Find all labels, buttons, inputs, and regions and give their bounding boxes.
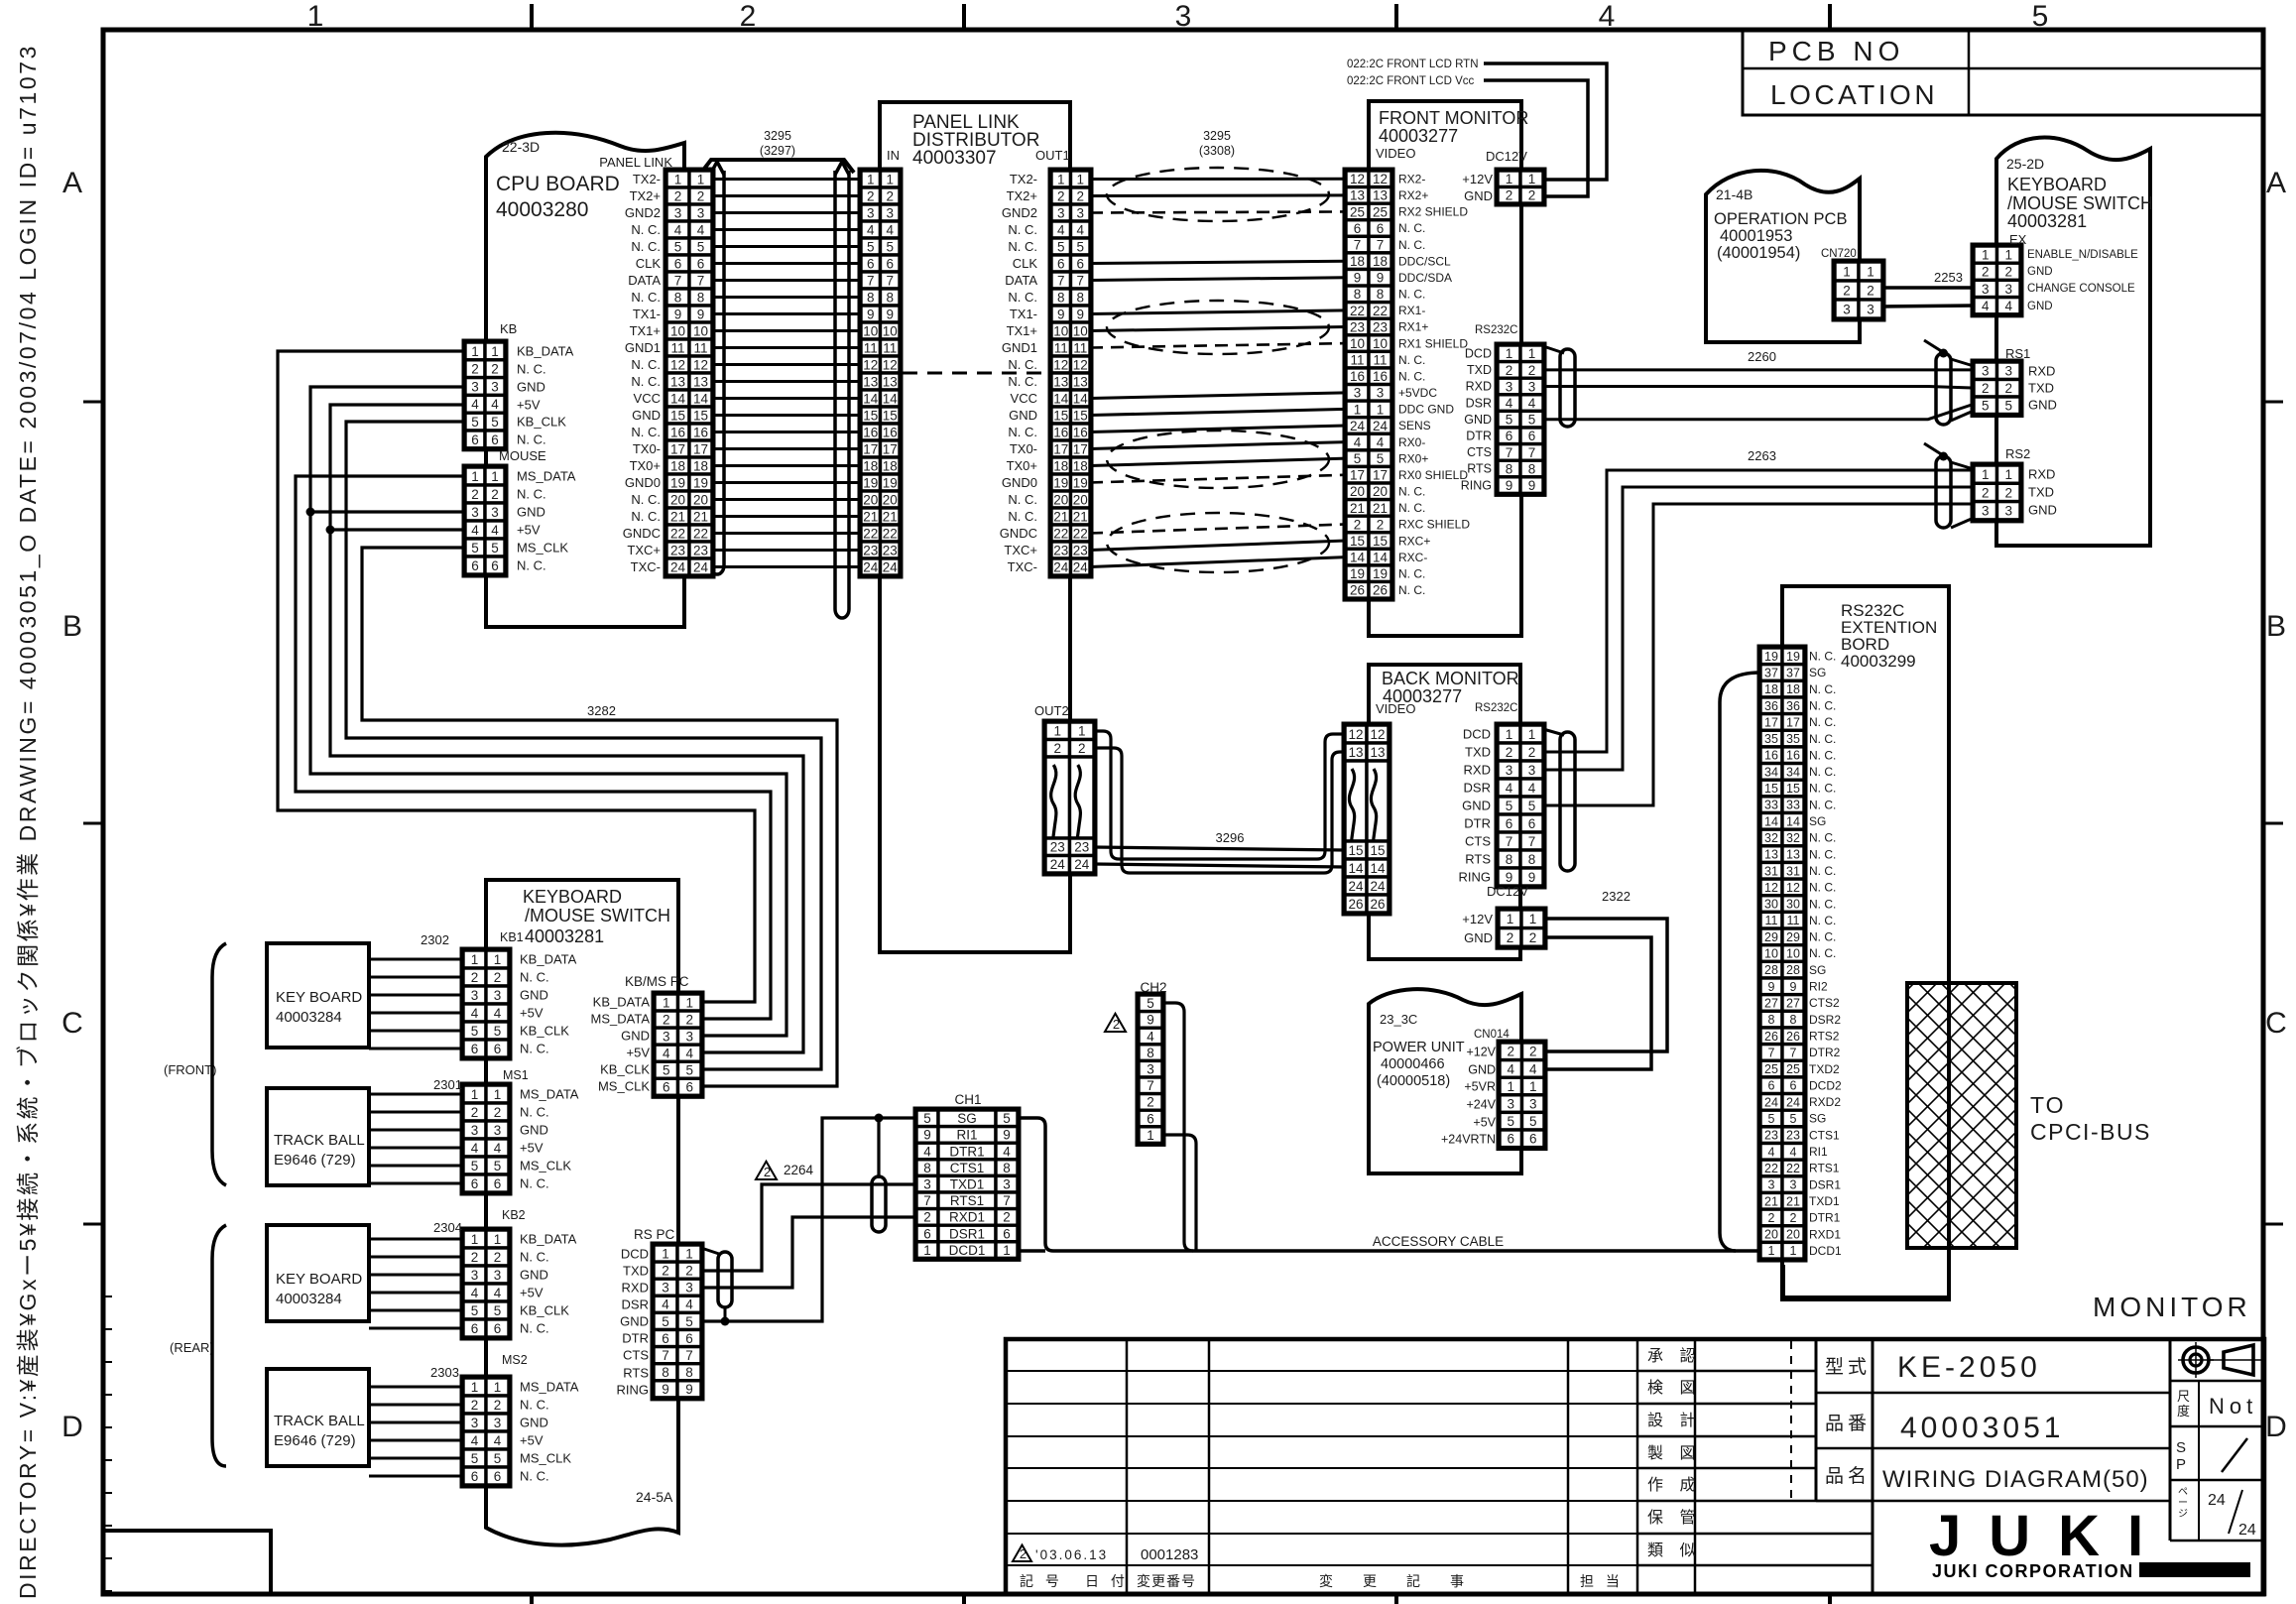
svg-text:1: 1	[662, 1246, 669, 1261]
svg-text:GND: GND	[1468, 1063, 1496, 1077]
svg-text:13: 13	[863, 374, 878, 389]
svg-text:5: 5	[674, 239, 682, 254]
svg-text:4: 4	[2004, 299, 2012, 313]
svg-text:5: 5	[471, 1024, 479, 1039]
svg-text:19: 19	[693, 475, 708, 490]
svg-text:6: 6	[1768, 1079, 1775, 1093]
svg-text:19: 19	[670, 475, 685, 490]
svg-text:6: 6	[662, 1331, 669, 1346]
svg-text:製 図: 製 図	[1647, 1444, 1701, 1462]
svg-text:1: 1	[1076, 172, 1084, 186]
svg-text:4: 4	[1528, 396, 1536, 411]
svg-text:1: 1	[685, 1246, 693, 1261]
svg-text:設 計: 設 計	[1647, 1412, 1701, 1429]
svg-text:N. C.: N. C.	[1809, 930, 1836, 944]
svg-text:N. C.: N. C.	[1809, 864, 1836, 878]
svg-text:N. C.: N. C.	[1398, 566, 1425, 580]
svg-text:2: 2	[1076, 188, 1084, 203]
svg-text:4: 4	[1147, 1029, 1154, 1044]
svg-text:SG: SG	[1809, 666, 1826, 679]
svg-text:9: 9	[1528, 478, 1536, 493]
svg-text:40003281: 40003281	[525, 926, 604, 946]
svg-text:6: 6	[471, 1042, 479, 1056]
svg-text:10: 10	[1073, 323, 1088, 338]
svg-text:24: 24	[1370, 879, 1386, 894]
svg-text:2: 2	[494, 1250, 502, 1265]
svg-text:+5V: +5V	[520, 1286, 544, 1300]
svg-text:2: 2	[1982, 485, 1990, 500]
svg-text:TXC-: TXC-	[631, 559, 661, 574]
svg-text:17: 17	[670, 441, 685, 456]
svg-text:TO: TO	[2030, 1092, 2066, 1118]
svg-text:2: 2	[471, 487, 479, 502]
svg-text:N. C.: N. C.	[1809, 831, 1836, 845]
svg-text:4: 4	[685, 1297, 693, 1312]
svg-text:RING: RING	[617, 1383, 650, 1398]
svg-text:2260: 2260	[1748, 349, 1776, 364]
svg-text:34: 34	[1786, 765, 1800, 779]
svg-text:2: 2	[471, 1398, 479, 1413]
svg-text:1: 1	[1528, 346, 1536, 361]
svg-text:MS_CLK: MS_CLK	[520, 1451, 571, 1466]
svg-text:23: 23	[1053, 543, 1068, 557]
svg-text:TX2+: TX2+	[1007, 188, 1037, 203]
svg-text:1: 1	[1529, 1079, 1537, 1094]
svg-text:4: 4	[697, 222, 705, 237]
svg-text:GND: GND	[632, 408, 661, 423]
svg-text:15: 15	[1073, 408, 1088, 423]
svg-text:14: 14	[1350, 550, 1366, 564]
svg-text:12: 12	[1373, 172, 1388, 186]
svg-text:14: 14	[1786, 814, 1800, 828]
svg-text:8: 8	[867, 290, 875, 305]
svg-text:TXD: TXD	[1465, 745, 1491, 760]
svg-text:3: 3	[494, 988, 502, 1003]
svg-text:DCD2: DCD2	[1809, 1078, 1842, 1092]
svg-text:N. C.: N. C.	[631, 222, 661, 237]
svg-text:TX0+: TX0+	[630, 458, 661, 473]
svg-text:2: 2	[1982, 265, 1990, 280]
svg-text:4: 4	[471, 1006, 479, 1021]
svg-text:8: 8	[1528, 461, 1536, 476]
svg-text:N. C.: N. C.	[520, 1250, 549, 1265]
svg-text:ENABLE_N/DISABLE: ENABLE_N/DISABLE	[2027, 249, 2138, 261]
svg-text:CTS: CTS	[623, 1348, 649, 1363]
svg-text:5: 5	[1147, 996, 1154, 1011]
svg-text:24: 24	[1050, 857, 1066, 872]
svg-text:16: 16	[1373, 369, 1388, 384]
svg-text:5: 5	[1377, 451, 1385, 466]
svg-text:20: 20	[693, 492, 708, 507]
svg-text:1: 1	[471, 1380, 479, 1395]
svg-text:RS232C: RS232C	[1475, 324, 1517, 336]
svg-text:KB_DATA: KB_DATA	[593, 995, 651, 1010]
svg-text:022:2C FRONT LCD Vcc: 022:2C FRONT LCD Vcc	[1347, 75, 1474, 87]
svg-text:5: 5	[2032, 0, 2049, 33]
svg-text:TX2+: TX2+	[630, 188, 661, 203]
svg-text:4: 4	[1507, 1061, 1514, 1076]
svg-text:1: 1	[1982, 467, 1990, 482]
svg-text:RX0 SHIELD: RX0 SHIELD	[1398, 468, 1468, 482]
svg-text:+5V: +5V	[520, 1006, 544, 1021]
svg-text:+12V: +12V	[1462, 172, 1493, 186]
svg-text:N. C.: N. C.	[1398, 288, 1425, 302]
svg-text:22: 22	[1373, 304, 1388, 318]
svg-text:6: 6	[1528, 429, 1536, 443]
svg-text:1: 1	[1377, 402, 1385, 417]
svg-text:9: 9	[923, 1128, 931, 1143]
svg-text:2264: 2264	[784, 1163, 814, 1177]
svg-text:TXC+: TXC+	[627, 543, 661, 557]
svg-text:GND: GND	[1464, 413, 1492, 427]
svg-text:型式: 型式	[1825, 1356, 1871, 1378]
svg-text:6: 6	[685, 1080, 693, 1095]
svg-text:RTS: RTS	[1467, 462, 1492, 476]
svg-text:2301: 2301	[433, 1077, 462, 1092]
svg-text:N. C.: N. C.	[631, 357, 661, 372]
svg-text:4: 4	[1377, 434, 1385, 449]
svg-text:13: 13	[1370, 745, 1385, 760]
svg-text:17: 17	[1786, 715, 1800, 729]
svg-text:N. C.: N. C.	[1008, 239, 1037, 254]
svg-text:1: 1	[1057, 172, 1065, 186]
svg-text:N. C.: N. C.	[517, 558, 546, 573]
svg-text:(3308): (3308)	[1199, 144, 1235, 158]
svg-text:22: 22	[693, 526, 708, 541]
svg-text:9: 9	[1354, 271, 1362, 286]
svg-text:2: 2	[674, 188, 682, 203]
svg-text:3: 3	[685, 1029, 693, 1044]
svg-text:15: 15	[1053, 408, 1068, 423]
svg-text:12: 12	[693, 357, 708, 372]
svg-text:6: 6	[471, 558, 479, 573]
svg-text:GND1: GND1	[625, 340, 661, 355]
svg-text:4: 4	[1057, 222, 1065, 237]
svg-text:8: 8	[674, 290, 682, 305]
svg-text:RXD1: RXD1	[1809, 1227, 1841, 1241]
svg-text:22-3D: 22-3D	[502, 139, 540, 155]
svg-text:6: 6	[471, 1321, 479, 1336]
svg-text:(3297): (3297)	[760, 144, 795, 158]
svg-text:6: 6	[1528, 816, 1536, 831]
svg-text:12: 12	[863, 357, 878, 372]
svg-text:3: 3	[1982, 282, 1990, 297]
svg-text:N. C.: N. C.	[1809, 748, 1836, 762]
svg-text:24: 24	[693, 559, 709, 574]
svg-text:GND: GND	[1009, 408, 1037, 423]
svg-text:2: 2	[471, 362, 479, 377]
svg-text:5: 5	[494, 1303, 502, 1318]
svg-text:DTR1: DTR1	[1809, 1211, 1841, 1225]
svg-text:N. C.: N. C.	[1008, 290, 1037, 305]
svg-text:N. C.: N. C.	[520, 1042, 549, 1056]
svg-text:3: 3	[685, 1281, 693, 1296]
svg-text:2: 2	[1506, 188, 1513, 203]
svg-text:GND: GND	[621, 1029, 650, 1044]
svg-text:DTR: DTR	[622, 1331, 649, 1346]
svg-text:CTS1: CTS1	[1809, 1128, 1840, 1142]
svg-text:'03.06.13: '03.06.13	[1035, 1547, 1108, 1562]
svg-text:2303: 2303	[430, 1365, 459, 1380]
svg-text:3: 3	[491, 379, 499, 394]
svg-text:4: 4	[685, 1047, 693, 1061]
svg-text:27: 27	[1764, 996, 1778, 1010]
svg-text:14: 14	[1073, 391, 1089, 406]
svg-text:4: 4	[1506, 781, 1513, 796]
svg-text:40003280: 40003280	[496, 198, 588, 221]
svg-text:5: 5	[685, 1063, 693, 1078]
svg-text:7: 7	[1790, 1046, 1797, 1059]
svg-text:2: 2	[491, 362, 499, 377]
svg-text:DATA: DATA	[1005, 273, 1037, 288]
svg-text:2: 2	[2004, 265, 2012, 280]
svg-text:10: 10	[1350, 336, 1365, 351]
svg-text:19: 19	[1350, 566, 1365, 581]
svg-text:N. C.: N. C.	[631, 374, 661, 389]
svg-text:RTS: RTS	[1465, 852, 1491, 867]
svg-text:N. C.: N. C.	[631, 290, 661, 305]
svg-text:5: 5	[1529, 1114, 1537, 1129]
svg-text:RTS1: RTS1	[1809, 1162, 1840, 1175]
svg-text:3: 3	[663, 1029, 670, 1044]
svg-text:23: 23	[1786, 1129, 1800, 1143]
svg-text:ー: ー	[2178, 1498, 2188, 1509]
svg-text:15: 15	[1373, 534, 1388, 549]
svg-text:9: 9	[1528, 870, 1536, 885]
svg-text:N. C.: N. C.	[1398, 238, 1425, 252]
svg-text:+5V: +5V	[520, 1433, 544, 1448]
svg-text:OUT2: OUT2	[1034, 703, 1069, 718]
svg-text:KB1: KB1	[500, 930, 524, 944]
svg-text:N. C.: N. C.	[631, 509, 661, 524]
svg-text:MS1: MS1	[503, 1068, 529, 1082]
svg-text:POWER UNIT: POWER UNIT	[1373, 1040, 1465, 1055]
svg-text:18: 18	[693, 458, 708, 473]
svg-text:4: 4	[494, 1433, 502, 1448]
svg-text:1: 1	[923, 1243, 931, 1258]
svg-text:VIDEO: VIDEO	[1376, 701, 1415, 716]
svg-text:9: 9	[662, 1382, 669, 1397]
svg-text:23: 23	[1373, 319, 1388, 334]
svg-text:DSR: DSR	[622, 1297, 649, 1312]
svg-text:15: 15	[693, 408, 708, 423]
svg-text:24: 24	[1764, 1095, 1778, 1109]
svg-text:23: 23	[883, 543, 898, 557]
svg-text:3: 3	[471, 1123, 479, 1138]
svg-text:14: 14	[1053, 391, 1069, 406]
svg-text:1: 1	[494, 1087, 502, 1102]
svg-text:3: 3	[674, 205, 682, 220]
svg-text:RX0-: RX0-	[1398, 435, 1425, 449]
svg-text:9: 9	[1377, 271, 1385, 286]
svg-text:4: 4	[494, 1006, 502, 1021]
svg-text:2: 2	[1768, 1211, 1775, 1225]
svg-text:3: 3	[471, 988, 479, 1003]
svg-text:TXC-: TXC-	[1008, 559, 1037, 574]
svg-text:1: 1	[491, 469, 499, 484]
svg-text:1: 1	[494, 952, 502, 967]
svg-text:2: 2	[685, 1264, 693, 1279]
svg-text:3: 3	[494, 1268, 502, 1283]
svg-text:RI1: RI1	[956, 1128, 977, 1143]
svg-text:RXD: RXD	[2028, 467, 2055, 482]
svg-text:KB_DATA: KB_DATA	[520, 1232, 577, 1247]
svg-text:11: 11	[693, 340, 707, 355]
svg-text:25: 25	[1350, 204, 1365, 219]
svg-text:7: 7	[685, 1348, 693, 1363]
svg-text:SG: SG	[1809, 1112, 1826, 1126]
svg-text:2: 2	[886, 188, 894, 203]
svg-text:23: 23	[1074, 840, 1089, 855]
svg-text:17: 17	[863, 441, 878, 456]
svg-text:1: 1	[697, 172, 705, 186]
svg-text:品番: 品番	[1825, 1413, 1871, 1434]
svg-text:5: 5	[886, 239, 894, 254]
svg-text:2: 2	[1053, 741, 1061, 756]
svg-text:7: 7	[1057, 273, 1065, 288]
svg-text:15: 15	[1786, 782, 1800, 796]
svg-text:6: 6	[663, 1080, 670, 1095]
svg-text:DC12V: DC12V	[1486, 149, 1527, 164]
svg-text:CH1: CH1	[954, 1092, 981, 1107]
svg-text:18: 18	[1786, 682, 1800, 696]
svg-text:18: 18	[1350, 254, 1365, 269]
svg-text:MS_DATA: MS_DATA	[517, 469, 576, 484]
svg-text:13: 13	[1053, 374, 1068, 389]
svg-text:16: 16	[1073, 425, 1088, 439]
svg-text:21: 21	[1373, 501, 1388, 516]
svg-text:RS232C: RS232C	[1475, 702, 1517, 714]
svg-text:10: 10	[693, 323, 708, 338]
svg-text:12: 12	[1786, 881, 1800, 895]
svg-text:24: 24	[1373, 419, 1389, 433]
svg-text:6: 6	[685, 1331, 693, 1346]
svg-text:4: 4	[471, 1433, 479, 1448]
svg-text:GND0: GND0	[1002, 475, 1037, 490]
svg-text:13: 13	[1073, 374, 1088, 389]
svg-text:GND: GND	[2028, 398, 2057, 413]
svg-text:2: 2	[1078, 741, 1086, 756]
svg-text:C: C	[61, 1007, 83, 1040]
svg-text:MS2: MS2	[502, 1353, 528, 1367]
svg-text:5: 5	[494, 1024, 502, 1039]
svg-text:23: 23	[1764, 1129, 1778, 1143]
svg-text:1: 1	[2004, 247, 2012, 262]
svg-text:18: 18	[883, 458, 898, 473]
svg-text:2: 2	[1528, 188, 1536, 203]
svg-text:MS_DATA: MS_DATA	[591, 1012, 651, 1027]
svg-text:1: 1	[1507, 1079, 1514, 1094]
svg-text:21: 21	[1764, 1194, 1778, 1208]
svg-text:4: 4	[494, 1286, 502, 1300]
svg-text:RX2 SHIELD: RX2 SHIELD	[1398, 205, 1468, 219]
svg-text:25: 25	[1764, 1062, 1778, 1076]
svg-text:OPERATION PCB: OPERATION PCB	[1714, 210, 1847, 228]
svg-text:4: 4	[1506, 396, 1513, 411]
svg-text:2: 2	[1057, 188, 1065, 203]
svg-text:14: 14	[1370, 861, 1386, 876]
svg-text:N. C.: N. C.	[517, 487, 546, 502]
svg-text:+5V: +5V	[1473, 1116, 1496, 1130]
svg-text:SG: SG	[957, 1111, 977, 1126]
svg-text:2253: 2253	[1934, 270, 1963, 285]
svg-text:5: 5	[662, 1314, 669, 1329]
svg-text:1: 1	[1506, 346, 1513, 361]
svg-text:3: 3	[1982, 364, 1990, 379]
svg-text:尺: 尺	[2177, 1389, 2190, 1404]
svg-text:36: 36	[1786, 699, 1800, 713]
svg-text:6: 6	[471, 432, 479, 447]
svg-text:13: 13	[1786, 848, 1800, 862]
svg-text:類 似: 類 似	[1647, 1542, 1701, 1559]
svg-text:2: 2	[1982, 381, 1990, 396]
svg-text:7: 7	[1528, 445, 1536, 460]
svg-text:GND2: GND2	[625, 205, 661, 220]
svg-text:N. C.: N. C.	[1398, 369, 1425, 383]
svg-text:21: 21	[1350, 501, 1365, 516]
svg-text:N. C.: N. C.	[1809, 682, 1836, 696]
svg-text:2: 2	[764, 1165, 771, 1179]
svg-text:32: 32	[1786, 831, 1800, 845]
svg-text:VCC: VCC	[1011, 391, 1037, 406]
svg-text:24: 24	[670, 559, 686, 574]
svg-text:2: 2	[471, 970, 479, 985]
svg-text:1: 1	[1053, 724, 1061, 739]
svg-text:GND0: GND0	[625, 475, 661, 490]
svg-text:7: 7	[1506, 445, 1513, 460]
svg-text:2: 2	[471, 1250, 479, 1265]
svg-text:RS2: RS2	[2005, 446, 2030, 461]
svg-text:1: 1	[471, 344, 479, 359]
svg-text:2: 2	[1354, 517, 1362, 532]
svg-text:MOUSE: MOUSE	[499, 448, 546, 463]
svg-text:4: 4	[1076, 222, 1084, 237]
svg-text:KB_CLK: KB_CLK	[600, 1062, 650, 1077]
svg-text:DSR: DSR	[1464, 781, 1491, 796]
svg-text:GND: GND	[520, 988, 548, 1003]
svg-text:7: 7	[867, 273, 875, 288]
svg-text:/MOUSE SWITCH: /MOUSE SWITCH	[2007, 193, 2153, 213]
svg-text:3: 3	[471, 1416, 479, 1430]
svg-text:N. C.: N. C.	[1809, 765, 1836, 779]
svg-text:24: 24	[1073, 559, 1089, 574]
svg-text:12: 12	[1764, 881, 1778, 895]
svg-text:6: 6	[867, 256, 875, 271]
svg-text:3: 3	[2004, 364, 2012, 379]
svg-text:MS_DATA: MS_DATA	[520, 1380, 579, 1395]
svg-text:MONITOR: MONITOR	[2093, 1292, 2251, 1322]
svg-text:4: 4	[471, 1141, 479, 1156]
svg-text:6: 6	[674, 256, 682, 271]
svg-text:8: 8	[685, 1365, 693, 1380]
svg-text:GND: GND	[1464, 188, 1493, 203]
svg-text:13: 13	[670, 374, 685, 389]
svg-text:18: 18	[1373, 254, 1388, 269]
svg-text:GNDC: GNDC	[623, 526, 661, 541]
svg-text:5: 5	[471, 1303, 479, 1318]
svg-text:3: 3	[2004, 504, 2012, 519]
svg-text:3296: 3296	[1216, 830, 1245, 845]
svg-text:4: 4	[1599, 0, 1616, 33]
svg-text:10: 10	[1786, 947, 1800, 961]
svg-text:KB: KB	[500, 321, 517, 336]
svg-text:2: 2	[867, 188, 875, 203]
svg-text:DCD1: DCD1	[1809, 1244, 1842, 1258]
svg-text:1: 1	[1507, 912, 1514, 926]
svg-text:16: 16	[883, 425, 898, 439]
svg-text:7: 7	[674, 273, 682, 288]
svg-text:8: 8	[1003, 1161, 1011, 1175]
